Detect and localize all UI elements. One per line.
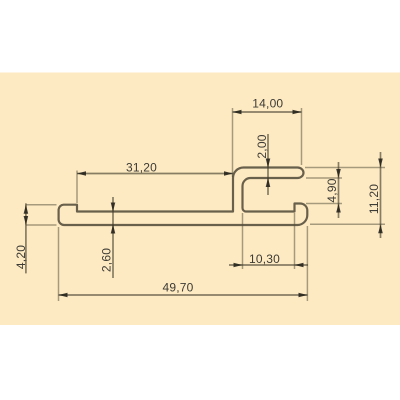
dimension 31,20 : arrow right — [224, 171, 233, 176]
dimension 2,60 : arrow top — [111, 203, 116, 212]
dimension 31,20 : arrow left — [77, 171, 86, 176]
dimension 2,00 : arrow top — [266, 159, 271, 168]
dimension 11,20 : arrow top — [378, 159, 383, 168]
dimension 4,20 : dimension line vertical — [25, 203, 27, 273]
dimension 4,90 : arrow bottom — [336, 204, 341, 213]
dimension 31,20 : dimension line — [77, 173, 233, 175]
dimension 4,20 : extension line top — [26, 204, 57, 206]
dimension 4,90 : extension line bottom — [306, 203, 342, 205]
dimension 14,00 : dimension line — [233, 111, 302, 113]
profile outline of extrusion cross-section — [59, 168, 308, 226]
dimension 31,20 : extension line at step — [76, 171, 78, 204]
dimension 49,70 : extension line left — [58, 227, 60, 301]
dimension 11,20 : arrow bottom — [378, 224, 383, 233]
dimension 14,00 : arrow right — [293, 110, 302, 115]
svg-text:4,90: 4,90 — [325, 178, 339, 202]
svg-text:11,20: 11,20 — [367, 184, 381, 214]
dimension 49,70 : extension line right — [306, 226, 308, 301]
dimension 2,00 : arrow bottom — [266, 178, 271, 187]
svg-text:2,60: 2,60 — [100, 248, 114, 272]
dimension 10,30 : arrow right outside — [295, 263, 304, 268]
dimension 4,90 : extension line top — [306, 177, 342, 179]
dimension 4,90 : arrow top — [336, 169, 341, 178]
dimension 11,20 : extension line bottom — [310, 223, 385, 225]
dimension 4,20 : arrow bottom — [24, 216, 29, 225]
dimension 49,70 : arrow right — [299, 293, 308, 298]
dimension 2,60 : dimension line vertical — [112, 197, 114, 278]
dimension 4,20 : extension line bottom — [26, 224, 57, 226]
dimension 11,20 : dimension line vertical — [380, 152, 382, 238]
svg-text:14,00: 14,00 — [252, 97, 283, 111]
dimension 14,00 : extension line right — [301, 108, 303, 165]
dimension 2,60 : arrow bottom — [111, 225, 116, 234]
svg-text:49,70: 49,70 — [162, 281, 193, 295]
dimension 10,30 : extension line left — [242, 213, 244, 269]
dimension 10,30 : extension line right — [294, 213, 296, 269]
svg-text:31,20: 31,20 — [126, 161, 157, 175]
dimension 4,20 : arrow top — [24, 205, 29, 214]
background beige band — [0, 73, 400, 326]
dimension 10,30 : arrow left outside — [234, 263, 243, 268]
svg-text:10,30: 10,30 — [249, 252, 280, 266]
dimension 49,70 : dimension line — [59, 294, 308, 296]
dimension 49,70 : arrow left — [59, 293, 68, 298]
svg-text:4,20: 4,20 — [14, 245, 28, 269]
dimension 4,90 : dimension line vertical — [338, 162, 340, 218]
dimension 2,00 : dimension line vertical — [267, 134, 269, 195]
dimension 14,00 : extension line left — [232, 108, 234, 177]
dimension 14,00 : arrow left — [233, 110, 242, 115]
svg-text:2,00: 2,00 — [255, 134, 269, 158]
dimension 11,20 : extension line top — [305, 167, 385, 169]
dimension 10,30 : dimension line — [229, 264, 308, 266]
